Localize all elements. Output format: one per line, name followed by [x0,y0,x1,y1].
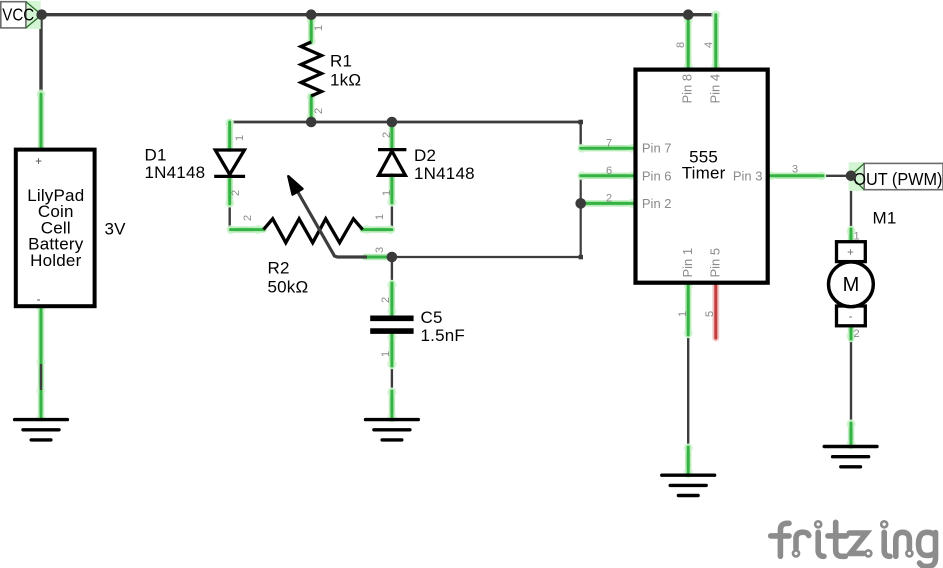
ground (C5) [366,420,419,440]
diode D2 body (cathode up) [378,150,406,176]
capacitor C5 plates [370,318,413,331]
svg-text:C5: C5 [421,308,443,327]
svg-text:-: - [37,294,41,306]
wire VCC to battery drop [39,15,42,94]
diode D1 pin 2 (green) [225,177,234,208]
motor M1 ground pin (green) [846,419,855,448]
potentiometer R2 wiper arrow [288,176,367,257]
svg-text:3V: 3V [105,220,127,239]
junction node Pin 8 [683,9,694,20]
resistor R1 pin 2 (green) [307,92,316,121]
svg-text:Pin 8: Pin 8 [680,74,695,104]
svg-text:D1: D1 [145,145,167,164]
IC U1 555 timer pin 3 (green) [766,171,825,180]
IC U1 555 timer pin 8 (green) [684,15,693,70]
net label OUT (PWM) [849,162,943,191]
svg-text:2: 2 [380,297,392,303]
svg-text:1: 1 [380,351,392,357]
diode D2 pin 1 (green) [387,176,396,207]
junction node R1 top [306,9,317,20]
svg-text:4: 4 [703,42,715,48]
svg-text:Pin 6: Pin 6 [642,168,672,183]
svg-text:M1: M1 [873,209,897,228]
svg-text:Holder: Holder [30,251,81,270]
diode D1 pin 1 (green) [225,118,234,149]
svg-text:Pin 1: Pin 1 [680,248,695,278]
capacitor C5 pin 2 (green) [387,280,396,315]
svg-text:1: 1 [234,135,246,141]
IC U1 555 timer pin 5 (red, unconnected) [712,283,719,338]
svg-text:2: 2 [230,190,242,196]
wire C5 to ground [391,365,393,391]
motor M1 body [829,242,874,326]
svg-text:8: 8 [675,42,687,48]
fritzing watermark logo [771,521,936,566]
wire rail corner to Pin 7 [580,122,582,148]
junction node Pin 2 [575,198,586,209]
potentiometer R2 wiper pin 3 (green) [365,254,388,260]
wire net B from R2 wiper junction to Pin6/Pin2 [392,176,581,257]
svg-text:1.5nF: 1.5nF [421,326,465,345]
junction node wiper/C5 [387,252,398,263]
junction node D2 top [387,117,398,128]
wire junction to C5 [391,257,393,283]
svg-text:D2: D2 [414,146,436,165]
svg-text:2: 2 [381,132,393,138]
wire OUT node to motor [850,176,852,229]
net label VCC [1,1,42,29]
potentiometer R2 pin 1 (green) [362,225,394,234]
IC U1 555 timer ground pin (green) [684,443,693,476]
ground (battery) [15,420,68,440]
junction node R1 bottom [306,117,317,128]
wire top VCC rail [42,13,716,16]
svg-text:Pin 5: Pin 5 [708,248,723,278]
IC U1 555 timer pin 1 (green) [684,281,693,337]
junction node VCC [36,9,47,20]
IC U1 555 timer pin 7 (green) [577,144,636,153]
wire mid rail D1 to 555 [230,121,581,124]
resistor R1 zigzag body [301,42,322,96]
ground (555 pin 1) [662,475,715,495]
svg-text:VCC: VCC [2,4,34,25]
svg-text:2: 2 [313,108,325,114]
wire Pin 3 to OUT node [823,175,851,177]
svg-text:R2: R2 [268,259,290,278]
battery B1 pin + (green) [36,89,45,148]
svg-text:1N4148: 1N4148 [145,163,206,182]
IC U1 555 timer body [636,70,768,283]
wire D2 bottom to R2 [391,203,393,230]
svg-text:R1: R1 [330,52,352,71]
potentiometer R2 zigzag body [264,219,363,243]
svg-text:+: + [35,156,42,168]
resistor R1 pin 1 (green) [307,15,316,45]
IC U1 555 timer pin 6 (green) [577,171,636,180]
svg-text:M: M [843,274,860,296]
battery B1 pin - (green) [36,303,45,421]
svg-text:1: 1 [374,214,386,220]
svg-text:6: 6 [606,165,612,177]
wire battery minus to ground [40,363,42,391]
potentiometer R2 pin 2 (green) [226,225,263,234]
svg-text:2: 2 [242,215,254,221]
capacitor C5 pin 1 (green) [387,332,396,368]
svg-text:Pin 4: Pin 4 [708,74,723,104]
svg-text:7: 7 [606,138,612,150]
svg-text:1N4148: 1N4148 [414,164,475,183]
svg-text:Pin 3: Pin 3 [733,168,763,183]
svg-text:1: 1 [677,311,689,317]
motor M1 pin 2 (green) [846,327,855,341]
IC U1 555 timer pin 4 (green) [711,10,720,71]
battery LilyPad Coin Cell Holder body [16,150,95,307]
motor M1 pin 1 (green) [846,226,855,241]
svg-text:Pin 2: Pin 2 [642,196,672,211]
junction node OUT [846,171,857,182]
svg-text:Pin 7: Pin 7 [642,141,672,156]
svg-text:1kΩ: 1kΩ [330,71,361,90]
svg-text:1: 1 [313,25,325,31]
svg-text:3: 3 [792,164,798,176]
svg-text:3: 3 [374,247,386,253]
svg-text:+: + [847,247,854,259]
svg-text:Timer: Timer [682,164,726,183]
svg-text:1: 1 [854,231,860,243]
svg-text:-: - [849,311,853,323]
wire Pin 1 to ground [687,335,689,447]
svg-text:1: 1 [381,190,393,196]
svg-text:50kΩ: 50kΩ [268,277,309,296]
capacitor C5 ground pin (green) [387,387,396,421]
diode D1 body (cathode down) [214,150,245,176]
wire D1 bottom to R2 [228,204,230,230]
diode D2 pin 2 (green) [387,118,396,149]
svg-text:OUT (PWM): OUT (PWM) [853,169,942,189]
svg-text:2: 2 [854,328,860,340]
IC U1 555 timer pin 2 (green) [581,199,637,208]
wire motor to ground [850,339,852,423]
ground (motor) [824,447,877,467]
svg-text:2: 2 [606,193,612,205]
IC U1 555 timer internal labels [642,74,763,278]
svg-text:5: 5 [704,311,716,317]
